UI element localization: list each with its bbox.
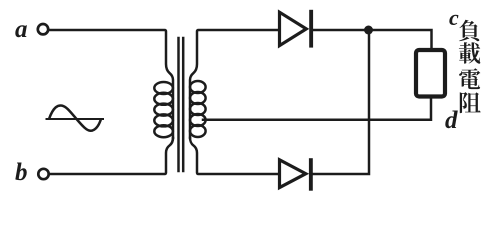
svg-text:b: b xyxy=(15,159,28,186)
svg-text:a: a xyxy=(15,16,28,43)
svg-text:c: c xyxy=(449,5,459,30)
svg-text:d: d xyxy=(445,107,458,134)
